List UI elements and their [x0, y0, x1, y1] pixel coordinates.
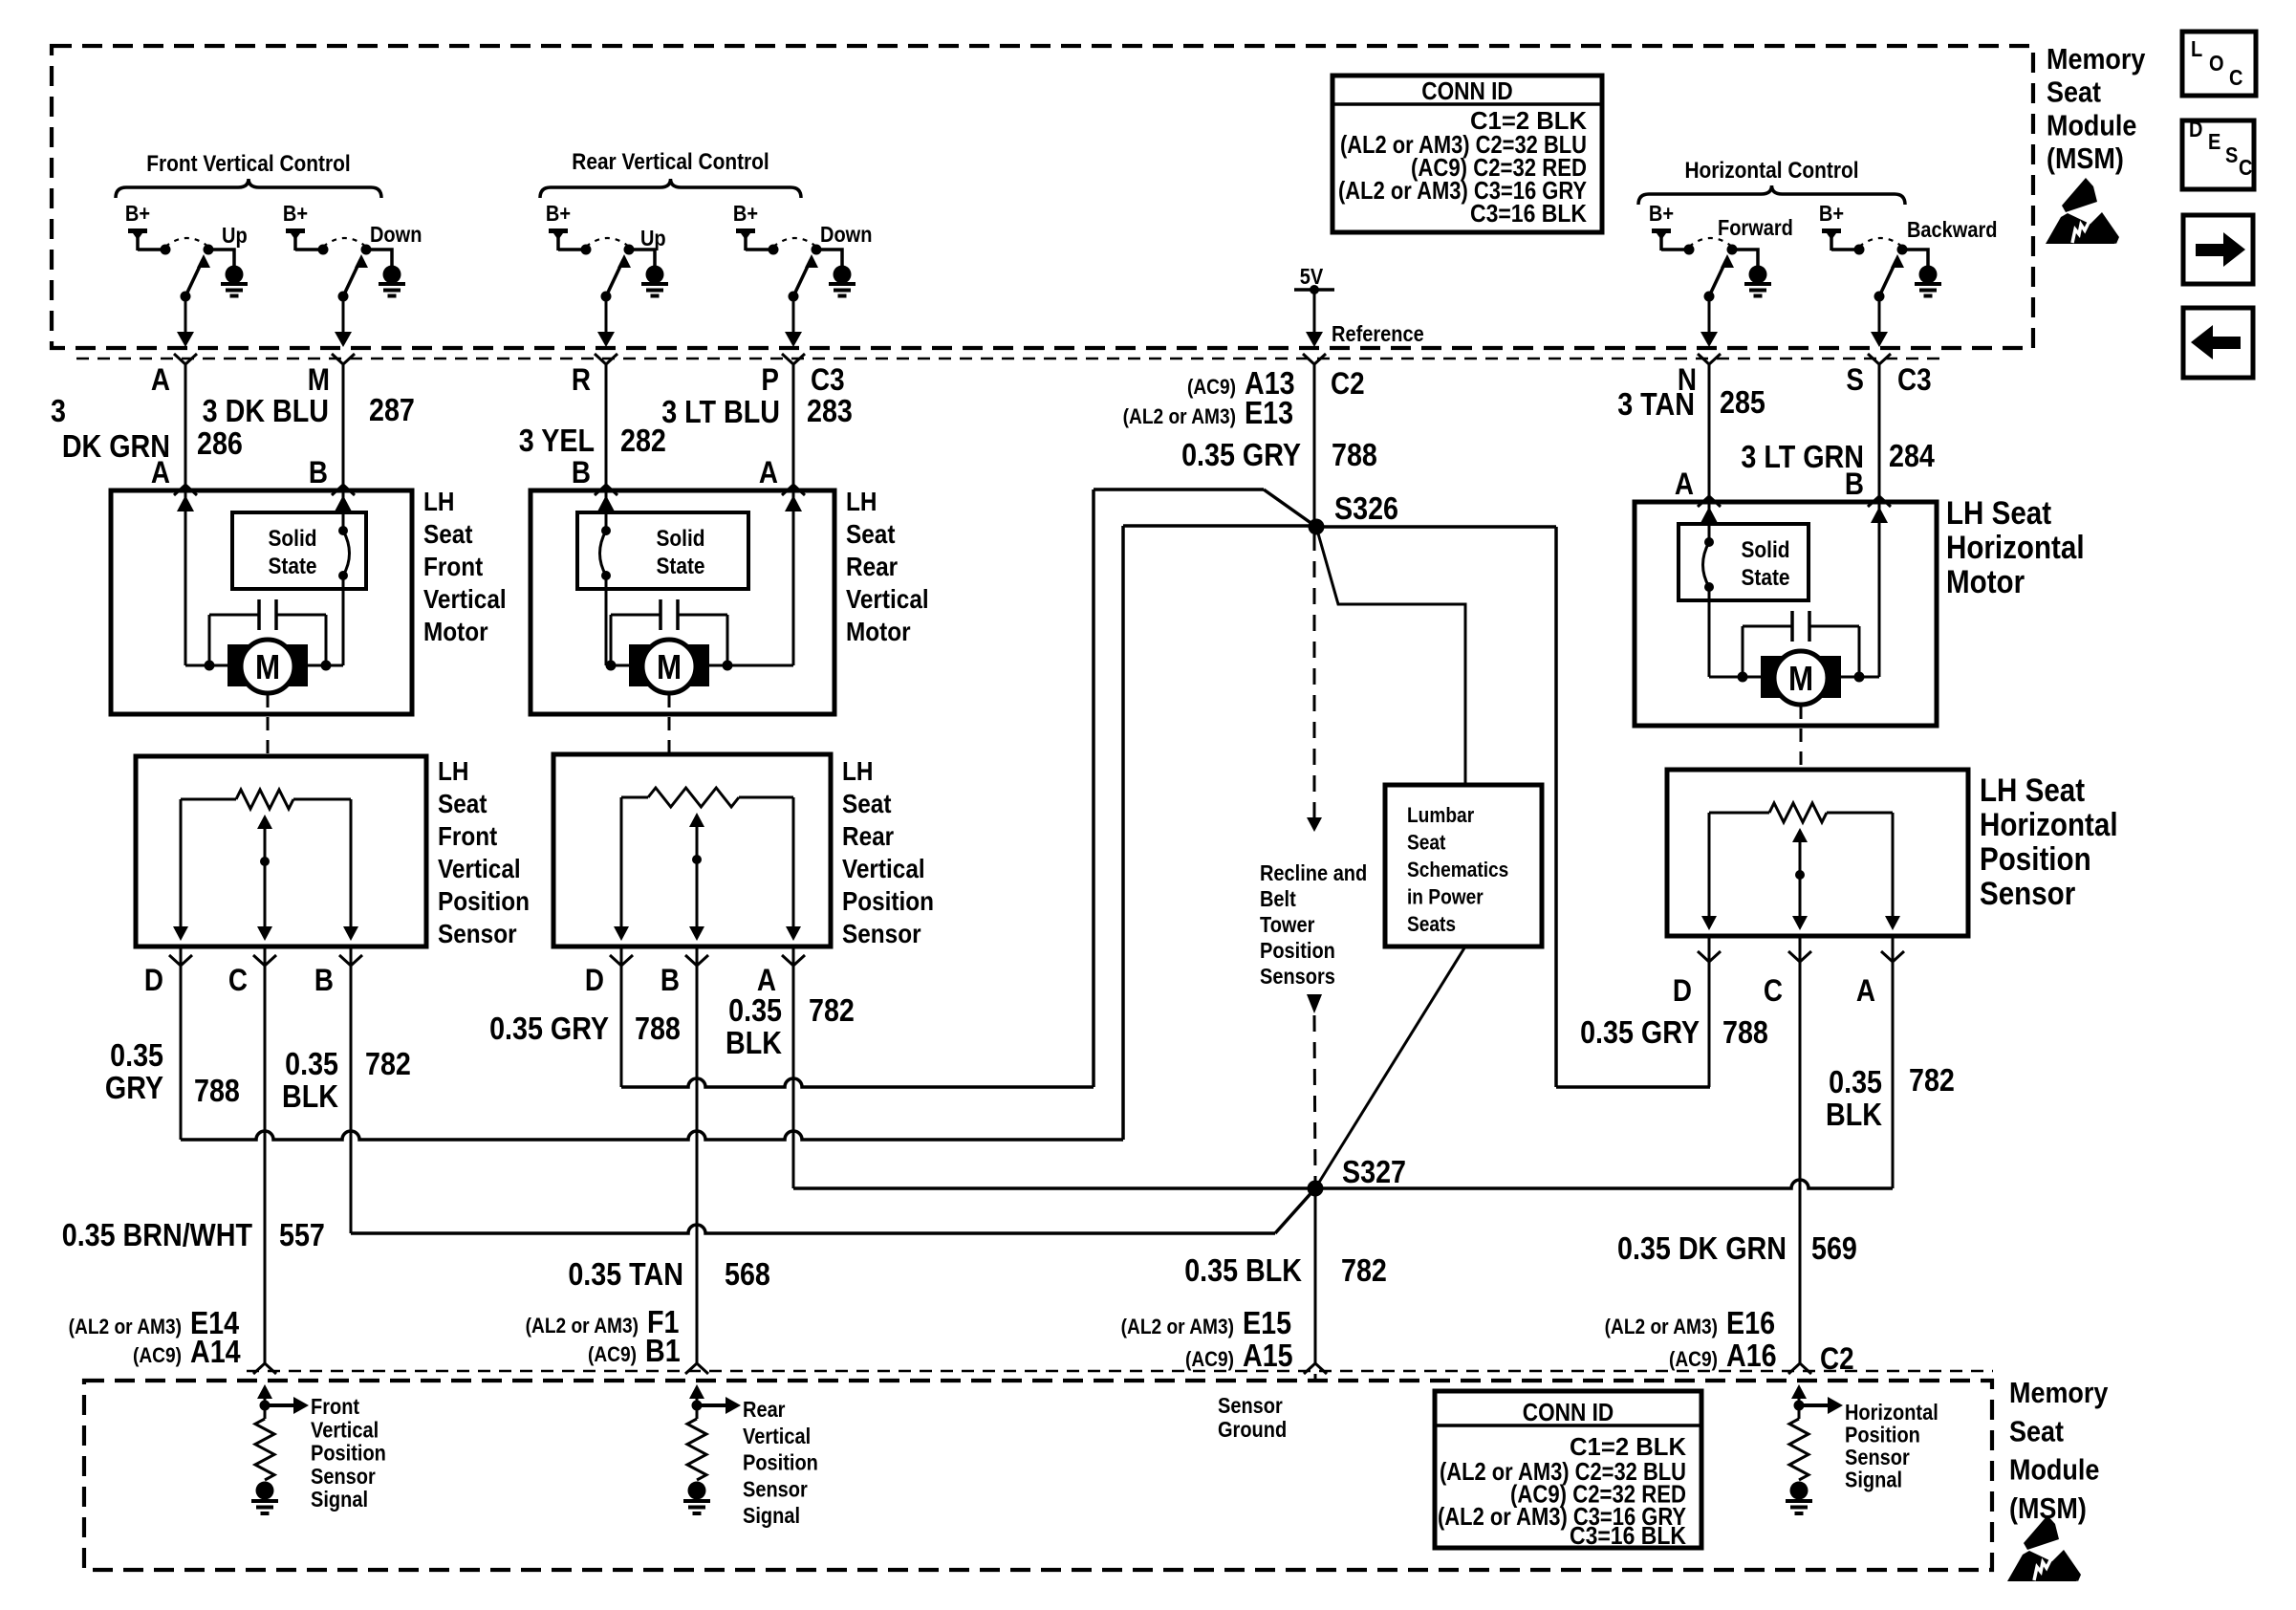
svg-text:S327: S327	[1342, 1154, 1406, 1189]
LH Seat Horizontal Position Sensor right leg	[1892, 813, 1895, 923]
front vertical position sensor signal connector arrow	[257, 1384, 272, 1399]
switch front-down wire from pivot to module edge	[342, 296, 345, 336]
LH Seat Front Vertical Position Sensor right leg	[350, 799, 353, 933]
sidebar DESC button	[2182, 120, 2254, 189]
switch rear-up contact dot (feed)	[581, 245, 592, 255]
svg-text:Solid: Solid	[268, 526, 316, 552]
LH Seat Rear Vertical Motor pin arrow left	[597, 495, 615, 511]
LH Seat Horizontal Motor left wire	[1708, 502, 1711, 542]
svg-text:Horizontal Control: Horizontal Control	[1684, 158, 1858, 184]
svg-text:Module: Module	[2047, 110, 2136, 142]
wire circuit 286 (3 DK GRN) MSM A to motor pin A	[184, 364, 187, 490]
rear vertical position sensor signal ground	[688, 1482, 706, 1500]
svg-text:568: 568	[725, 1256, 770, 1292]
svg-text:A15: A15	[1243, 1338, 1293, 1373]
wire sensor ground into MSM	[1314, 1374, 1317, 1382]
svg-text:Seat: Seat	[423, 518, 473, 549]
switch horizontal-backward contact dot (output)	[1897, 245, 1908, 255]
connector half at motor pin, wire x=194	[174, 485, 197, 495]
svg-text:State: State	[268, 554, 316, 579]
svg-text:Reference: Reference	[1332, 321, 1424, 347]
LH Seat Horizontal Motor right wire	[1878, 502, 1881, 677]
svg-text:Vertical: Vertical	[743, 1423, 811, 1448]
LH Seat Front Vertical Motor junction dots	[205, 661, 215, 671]
svg-text:0.35: 0.35	[1829, 1064, 1882, 1099]
svg-text:Sensor: Sensor	[842, 918, 921, 948]
svg-text:0.35 GRY: 0.35 GRY	[1181, 437, 1301, 472]
svg-text:Sensors: Sensors	[1260, 964, 1335, 990]
wire rear sensor pin A (782 BLK) down	[792, 946, 795, 1188]
switch horizontal-forward pivot dot	[1704, 292, 1715, 302]
front vertical position sensor signal junction dot	[260, 1401, 271, 1411]
svg-text:B: B	[1845, 468, 1864, 501]
svg-text:(AC9): (AC9)	[1669, 1348, 1718, 1372]
svg-text:C3: C3	[1897, 363, 1932, 397]
LH Seat Rear Vertical Motor outer box	[531, 490, 834, 714]
svg-text:Seats: Seats	[1407, 913, 1456, 937]
LH Seat Rear Vertical Position Sensor wiper	[689, 813, 704, 827]
connector half at MSM entry x=1883	[1788, 1363, 1811, 1374]
svg-text:(AL2 or AM3): (AL2 or AM3)	[1605, 1316, 1718, 1339]
LH Seat Rear Vertical Position Sensor potentiometer element	[621, 796, 648, 799]
LH Seat Front Vertical Motor right wire	[342, 490, 345, 531]
svg-text:3 DK BLU: 3 DK BLU	[203, 393, 329, 428]
LH Seat Horizontal Position Sensor potentiometer element	[1709, 812, 1769, 815]
wire rear sensor pin D to 788 bus	[620, 946, 623, 1087]
rear vertical position sensor signal junction dot	[692, 1401, 703, 1411]
svg-text:B+: B+	[1649, 201, 1674, 227]
svg-text:0.35: 0.35	[110, 1037, 163, 1073]
front vertical position sensor signal ground	[256, 1482, 274, 1500]
svg-text:BLK: BLK	[726, 1025, 783, 1060]
svg-text:Vertical: Vertical	[438, 853, 521, 883]
svg-text:B: B	[309, 456, 328, 490]
svg-text:Forward: Forward	[1718, 215, 1793, 241]
svg-text:CONN ID: CONN ID	[1421, 78, 1512, 106]
svg-text:D: D	[144, 964, 163, 997]
svg-text:3 LT BLU: 3 LT BLU	[661, 394, 780, 429]
switch rear-down feed wire	[746, 248, 773, 251]
svg-text:A: A	[1856, 974, 1875, 1008]
connector half at motor pin, wire x=1966	[1868, 496, 1891, 507]
svg-text:D: D	[2189, 117, 2202, 142]
wire circuit 287 (3 DK BLU) MSM M to motor pin B	[342, 364, 345, 490]
svg-text:A: A	[1675, 468, 1694, 501]
wire Lumbar box to splice S327	[1315, 946, 1465, 1188]
svg-text:Up: Up	[640, 226, 666, 251]
switch front-up contact dot (feed)	[161, 245, 171, 255]
svg-text:286: 286	[197, 425, 243, 461]
switch front-down movable arm	[343, 260, 360, 296]
switch horizontal-forward dashed gang link	[1689, 238, 1732, 247]
rear vertical position sensor signal resistance element	[687, 1419, 706, 1480]
svg-text:E: E	[2208, 129, 2220, 155]
switch front-down dashed gang link	[323, 238, 366, 247]
svg-text:S: S	[2225, 142, 2238, 168]
svg-text:557: 557	[279, 1217, 325, 1252]
svg-text:B1: B1	[645, 1333, 681, 1368]
svg-text:E13: E13	[1245, 395, 1293, 430]
svg-text:C: C	[2239, 155, 2252, 181]
svg-text:B: B	[314, 964, 334, 997]
svg-text:782: 782	[1909, 1062, 1955, 1098]
brace Front Vertical Control	[116, 179, 381, 198]
switch horizontal-backward wire from pivot to module edge	[1878, 296, 1881, 336]
svg-text:Module: Module	[2009, 1454, 2099, 1487]
switch rear-up dashed gang link	[586, 238, 629, 247]
in-line connector boundary (bottom, dashed)	[247, 1370, 1993, 1373]
svg-text:283: 283	[807, 393, 853, 428]
wire horizontal sensor pin D to 788 bus	[1708, 936, 1711, 1087]
svg-text:Seat: Seat	[846, 518, 896, 549]
svg-text:0.35 BRN/WHT: 0.35 BRN/WHT	[62, 1217, 252, 1252]
svg-text:B+: B+	[125, 201, 150, 227]
horizontal position sensor signal signal arrow	[1799, 1403, 1828, 1407]
LH Seat Front Vertical Motor suppression capacitor	[209, 614, 259, 617]
LH Seat Front Vertical Motor left wire	[184, 490, 187, 665]
brace Rear Vertical Control	[540, 179, 801, 198]
switch rear-down pivot dot	[789, 292, 799, 302]
svg-text:Signal: Signal	[743, 1503, 800, 1529]
svg-text:0.35: 0.35	[728, 992, 782, 1028]
LH Seat Horizontal Motor solid state box	[1679, 524, 1809, 600]
front vertical position sensor signal resistance element	[255, 1419, 274, 1480]
connector half at MSM exit, wire x=194	[174, 354, 197, 364]
svg-text:287: 287	[369, 392, 415, 427]
svg-text:M: M	[657, 648, 682, 687]
svg-text:Rear: Rear	[842, 820, 894, 851]
rear vertical position sensor signal signal arrow	[697, 1403, 726, 1407]
svg-text:S326: S326	[1334, 490, 1398, 526]
switch front-down feed wire	[295, 248, 323, 251]
wire circuit 285 (3 TAN) MSM N to horizontal motor pin A	[1708, 364, 1711, 502]
svg-text:A: A	[151, 456, 170, 490]
svg-text:Vertical: Vertical	[423, 583, 507, 614]
bus 782 BLK rear sensor A through S327 to horizontal sensor A (with hop)	[793, 1180, 1893, 1188]
svg-text:788: 788	[194, 1073, 240, 1108]
svg-text:LH: LH	[846, 486, 877, 516]
svg-text:Solid: Solid	[1741, 537, 1789, 563]
switch front-up movable arm	[185, 260, 203, 296]
svg-text:(AC9): (AC9)	[1187, 376, 1236, 400]
svg-text:Recline and: Recline and	[1260, 860, 1367, 886]
switch rear-up wire to ground	[629, 250, 655, 266]
connector half at sensor pin, wire x=277	[253, 955, 276, 966]
LH Seat Rear Vertical Position Sensor left leg	[620, 797, 623, 933]
svg-text:(AC9): (AC9)	[1185, 1348, 1234, 1372]
LH Seat Horizontal Position Sensor outer box	[1667, 770, 1968, 936]
connector half at MSM exit, wire x=1375	[1303, 354, 1326, 364]
switch rear-down wire to ground	[816, 250, 842, 266]
svg-text:3: 3	[51, 393, 66, 428]
switch rear-down dashed gang link	[773, 238, 816, 247]
svg-text:788: 788	[1722, 1014, 1768, 1050]
LH Seat Rear Vertical Motor motor armature M	[642, 640, 696, 693]
svg-text:Sensor: Sensor	[1980, 875, 2075, 911]
svg-text:B+: B+	[283, 201, 308, 227]
connector half at MSM exit, wire x=359	[332, 354, 355, 364]
brace Horizontal Control	[1638, 185, 1905, 205]
wire circuit 557 (0.35 BRN/WHT) front position signal	[264, 946, 267, 1363]
svg-text:Sensor: Sensor	[1218, 1393, 1283, 1419]
svg-text:Motor: Motor	[423, 616, 488, 646]
ESD sensitivity symbol	[2062, 178, 2097, 212]
svg-text:LH Seat: LH Seat	[1946, 494, 2051, 531]
svg-text:C: C	[2229, 65, 2242, 91]
svg-text:(AC9): (AC9)	[133, 1344, 182, 1368]
svg-text:M: M	[255, 648, 280, 687]
horizontal position sensor signal resistance element	[1789, 1419, 1809, 1480]
switch rear-up movable arm	[606, 260, 623, 296]
horizontal position sensor signal connector arrow	[1791, 1384, 1807, 1399]
sidebar next-page arrow button	[2183, 215, 2253, 284]
LH Seat Horizontal Motor motor brushes	[1761, 656, 1784, 698]
svg-text:Signal: Signal	[1845, 1467, 1902, 1492]
wire front sensor pin B (782 BLK) down	[350, 946, 353, 1233]
LH Seat Front Vertical Motor pin arrow left	[177, 495, 194, 511]
connector half at MSM exit, wire x=830	[782, 354, 805, 364]
switch rear-up pivot dot	[601, 292, 612, 302]
svg-text:E15: E15	[1243, 1305, 1291, 1340]
svg-text:782: 782	[809, 992, 855, 1028]
svg-text:0.35 BLK: 0.35 BLK	[1184, 1252, 1302, 1288]
svg-text:Seat: Seat	[1407, 831, 1446, 855]
svg-text:Front: Front	[423, 551, 483, 581]
connector half at MSM exit, wire x=634	[595, 354, 617, 364]
svg-text:Rear Vertical Control: Rear Vertical Control	[572, 149, 769, 175]
svg-text:Position: Position	[842, 885, 934, 916]
svg-text:Horizontal: Horizontal	[1946, 529, 2085, 565]
svg-text:0.35 TAN: 0.35 TAN	[568, 1256, 683, 1292]
wire circuit 569 (0.35 DK GRN) horizontal position signal	[1799, 936, 1802, 1363]
switch rear-down wire from pivot to module edge	[792, 296, 795, 336]
svg-text:Ground: Ground	[1218, 1417, 1287, 1443]
dashed mechanical link rear vertical motor to sensor	[668, 694, 671, 754]
connector half at sensor pin, wire x=1980	[1881, 951, 1904, 962]
svg-text:CONN ID: CONN ID	[1523, 1400, 1614, 1427]
svg-text:Position: Position	[438, 885, 530, 916]
svg-text:Lumbar: Lumbar	[1407, 804, 1474, 828]
LH Seat Front Vertical Position Sensor potentiometer element	[181, 798, 236, 801]
switch front-up ground	[226, 266, 244, 284]
switch front-up dashed gang link	[165, 238, 208, 247]
connector half at sensor pin, wire x=189	[169, 955, 192, 966]
LH Seat Rear Vertical Motor right wire	[792, 490, 795, 665]
callout box Lumbar Seat Schematics in Power Seats	[1385, 785, 1542, 946]
connector half at motor pin, wire x=830	[782, 485, 805, 495]
svg-text:(AL2 or AM3): (AL2 or AM3)	[1121, 1316, 1234, 1339]
sidebar LOC button	[2182, 32, 2256, 96]
svg-text:Sensor: Sensor	[743, 1476, 808, 1502]
svg-text:Motor: Motor	[1946, 563, 2025, 599]
svg-text:Signal: Signal	[311, 1487, 368, 1512]
connector half at motor pin, wire x=1788	[1698, 496, 1721, 507]
LH Seat Front Vertical Motor solid state switch contacts	[338, 526, 348, 535]
svg-text:O: O	[2209, 51, 2224, 76]
connector half at sensor pin, wire x=830	[782, 955, 805, 966]
svg-text:3 YEL: 3 YEL	[519, 423, 595, 458]
switch front-up wire from pivot to module edge	[184, 296, 187, 336]
LH Seat Front Vertical Motor motor brushes	[227, 644, 250, 686]
horizontal position sensor signal junction dot	[1794, 1401, 1805, 1411]
switch horizontal-forward contact dot (feed)	[1684, 245, 1695, 255]
svg-text:0.35 DK GRN: 0.35 DK GRN	[1617, 1230, 1787, 1266]
connector half at MSM exit, wire x=1966	[1868, 354, 1891, 364]
switch rear-down movable arm	[793, 260, 811, 296]
switch rear-down contact dot (feed)	[769, 245, 779, 255]
svg-text:D: D	[585, 964, 604, 997]
in-line connector boundary (top, dashed)	[76, 358, 1942, 360]
svg-text:Position: Position	[1260, 938, 1335, 964]
svg-text:Up: Up	[222, 223, 248, 249]
svg-text:Seat: Seat	[2009, 1416, 2064, 1448]
switch horizontal-backward movable arm	[1879, 260, 1896, 296]
connector half at sensor pin, wire x=1883	[1788, 951, 1811, 962]
svg-text:LH Seat: LH Seat	[1980, 772, 2085, 808]
svg-text:Seat: Seat	[842, 788, 892, 818]
switch horizontal-forward wire to ground	[1732, 250, 1758, 266]
svg-text:Vertical: Vertical	[842, 853, 925, 883]
svg-text:Seat: Seat	[2047, 76, 2101, 109]
svg-text:569: 569	[1811, 1230, 1857, 1266]
svg-text:Schematics: Schematics	[1407, 859, 1508, 882]
svg-text:Memory: Memory	[2047, 43, 2145, 76]
svg-text:Sensor: Sensor	[311, 1464, 376, 1490]
LH Seat Horizontal Motor pin arrow right	[1871, 507, 1888, 523]
switch front-up contact dot (output)	[204, 245, 214, 255]
svg-text:LH: LH	[438, 755, 468, 786]
svg-text:5V: 5V	[1300, 264, 1324, 290]
svg-text:C: C	[1764, 974, 1783, 1008]
svg-text:State: State	[1741, 565, 1789, 591]
switch horizontal-forward feed wire	[1661, 248, 1689, 251]
switch horizontal-forward wire from pivot to module edge	[1708, 296, 1711, 336]
svg-text:Position: Position	[311, 1440, 386, 1466]
svg-text:BLK: BLK	[1826, 1097, 1883, 1132]
connector half at sensor pin, wire x=1788	[1698, 951, 1721, 962]
connector half at MSM entry x=277	[253, 1363, 276, 1374]
bus 788 GRY from rear sensor D to S326 (with hops)	[621, 1078, 1094, 1087]
switch rear-up wire from pivot to module edge	[605, 296, 608, 336]
svg-text:State: State	[656, 554, 704, 579]
switch horizontal-forward movable arm	[1709, 260, 1726, 296]
LH Seat Horizontal Position Sensor wiper	[1792, 828, 1808, 842]
svg-text:Motor: Motor	[846, 616, 911, 646]
svg-text:788: 788	[635, 1011, 681, 1046]
switch front-up wire to ground	[208, 250, 234, 266]
switch horizontal-backward feed wire	[1831, 248, 1859, 251]
LH Seat Rear Vertical Motor pin arrow right	[785, 495, 802, 511]
LH Seat Front Vertical Position Sensor wiper	[257, 815, 272, 829]
svg-text:B+: B+	[1819, 201, 1844, 227]
svg-text:0.35 GRY: 0.35 GRY	[1580, 1014, 1700, 1050]
LH Seat Rear Vertical Motor left wire	[605, 490, 608, 531]
connector half at MSM entry x=1376	[1304, 1363, 1327, 1374]
svg-text:Memory: Memory	[2009, 1377, 2108, 1409]
svg-text:B+: B+	[546, 201, 571, 227]
svg-text:282: 282	[620, 423, 666, 458]
svg-text:0.35 GRY: 0.35 GRY	[489, 1011, 609, 1046]
switch front-down wire to ground	[366, 250, 392, 266]
svg-text:Sensor: Sensor	[438, 918, 517, 948]
switch horizontal-backward pivot dot	[1874, 292, 1885, 302]
LH Seat Front Vertical Position Sensor left leg	[180, 799, 183, 933]
svg-text:P: P	[761, 363, 779, 397]
svg-text:B: B	[661, 964, 680, 997]
svg-text:0.35: 0.35	[285, 1046, 338, 1081]
svg-text:E16: E16	[1726, 1305, 1775, 1340]
wire horizontal sensor pin A (782 BLK) down	[1892, 936, 1895, 1188]
svg-text:Front: Front	[311, 1394, 359, 1420]
svg-text:L: L	[2191, 36, 2202, 62]
LH Seat Horizontal Motor outer box	[1635, 502, 1937, 726]
LH Seat Rear Vertical Motor solid state box	[577, 512, 748, 589]
svg-text:(AL2 or AM3): (AL2 or AM3)	[526, 1315, 639, 1338]
svg-text:BLK: BLK	[282, 1078, 339, 1114]
switch front-down contact dot (output)	[361, 245, 372, 255]
connector half at sensor pin, wire x=367	[339, 955, 362, 966]
wire 5V reference inside MSM	[1313, 290, 1316, 336]
switch front-up feed wire	[138, 248, 165, 251]
wire circuit 283 (3 LT BLU) MSM P to rear motor pin A	[792, 364, 795, 490]
connector half at MSM exit, wire x=1788	[1698, 354, 1721, 364]
svg-text:Horizontal: Horizontal	[1980, 806, 2118, 842]
svg-text:LH: LH	[842, 755, 873, 786]
svg-text:C3=16 BLK: C3=16 BLK	[1470, 199, 1587, 228]
svg-text:Seat: Seat	[438, 788, 487, 818]
LH Seat Rear Vertical Motor junction dots	[606, 661, 617, 671]
splice S327	[1308, 1181, 1324, 1197]
connector half at motor pin, wire x=634	[595, 485, 617, 495]
svg-text:Position: Position	[1980, 840, 2091, 877]
svg-text:S: S	[1846, 363, 1864, 397]
svg-text:R: R	[572, 363, 591, 397]
LH Seat Horizontal Motor junction dots	[1738, 672, 1748, 683]
wire circuit 788 (0.35 GRY) 5V reference to S326	[1313, 364, 1316, 527]
svg-text:C: C	[228, 964, 248, 997]
LH Seat Front Vertical Motor pin arrow right	[335, 495, 352, 511]
bus 788 GRY from horizontal sensor D to S326	[1556, 1085, 1710, 1089]
dashed mechanical link front vertical motor to sensor	[267, 694, 270, 756]
LH Seat Front Vertical Motor solid state box	[232, 512, 366, 589]
switch horizontal-forward ground	[1749, 266, 1767, 284]
switch front-down ground	[383, 266, 401, 284]
LH Seat Rear Vertical Motor solid state switch contacts	[601, 526, 611, 535]
switch horizontal-backward ground	[1919, 266, 1938, 284]
svg-text:D: D	[1673, 974, 1692, 1008]
svg-text:(AC9): (AC9)	[588, 1343, 637, 1367]
rear vertical position sensor signal connector arrow	[689, 1384, 704, 1399]
svg-text:782: 782	[1341, 1252, 1387, 1288]
switch horizontal-forward contact dot (output)	[1727, 245, 1738, 255]
svg-text:Position: Position	[743, 1449, 818, 1475]
svg-text:3 TAN: 3 TAN	[1617, 386, 1695, 422]
front vertical position sensor signal signal arrow	[265, 1403, 293, 1407]
svg-text:(AL2 or AM3): (AL2 or AM3)	[69, 1316, 182, 1339]
svg-text:Front: Front	[438, 820, 497, 851]
wire circuit 782 sensor ground from S327 to MSM	[1314, 1196, 1317, 1363]
connector half at sensor pin, wire x=650	[610, 955, 633, 966]
LH Seat Rear Vertical Motor motor brushes	[629, 644, 652, 686]
wire S326 to Lumbar Seat Schematics	[1316, 527, 1465, 785]
svg-text:GRY: GRY	[105, 1070, 163, 1105]
svg-text:Rear: Rear	[743, 1397, 786, 1423]
dashed off-page reference wire from S326	[1313, 534, 1316, 817]
svg-text:LH: LH	[423, 486, 454, 516]
svg-text:Backward: Backward	[1907, 217, 1998, 243]
switch rear-up ground	[646, 266, 664, 284]
svg-text:(AL2 or AM3): (AL2 or AM3)	[1123, 405, 1236, 429]
